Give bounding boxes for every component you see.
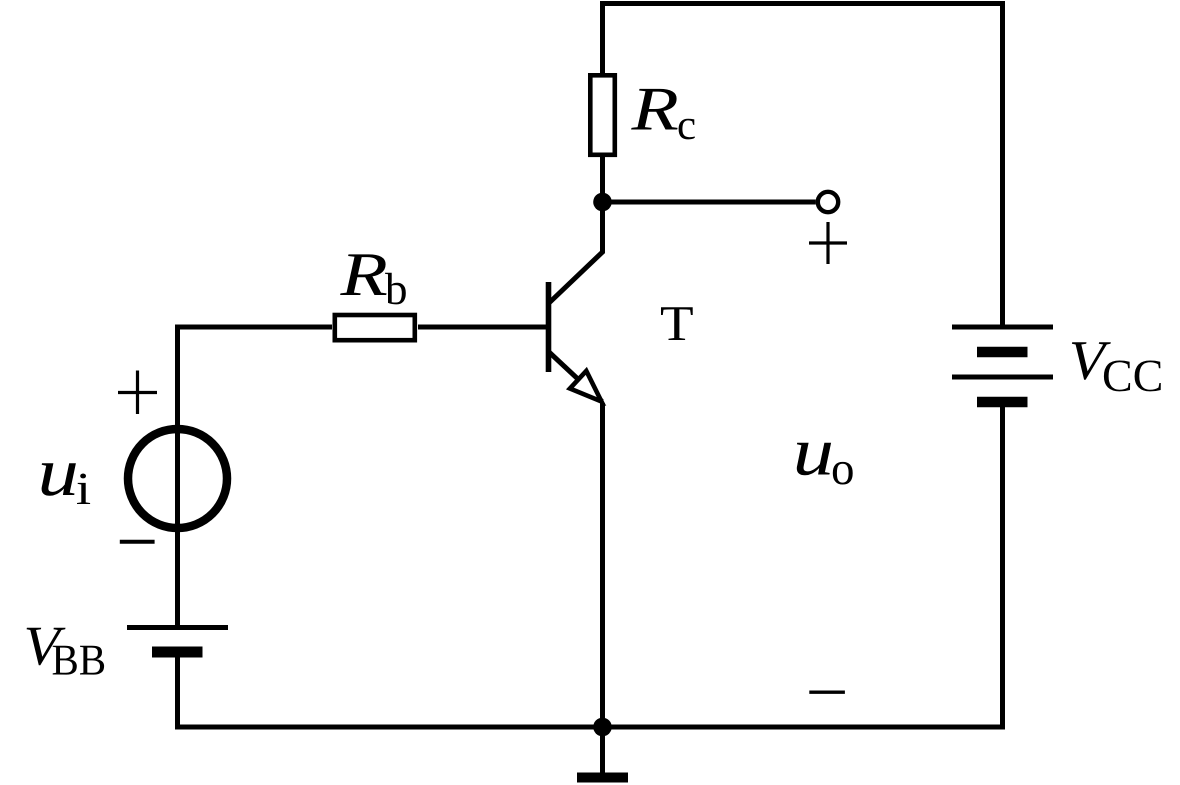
resistor Rc (590, 75, 615, 155)
wire: Rc bottom to collector node (600, 155, 605, 205)
transistor T: emitter open arrowhead (570, 371, 602, 402)
label uo: u (797, 443, 831, 476)
label T (661, 307, 693, 340)
label Rb: R (340, 254, 387, 295)
label VBB: V (27, 628, 66, 666)
transistor T: base bar (546, 282, 552, 372)
battery VCC short thick plate 2 (977, 397, 1028, 408)
wire: Rb right to base (418, 325, 549, 330)
label Rb: subscript b (385, 273, 406, 305)
label plus sign at ui (118, 371, 157, 415)
battery VCC long plate 1 (952, 325, 1053, 330)
label VCC: subscript CC (1104, 361, 1161, 392)
wire: collector node to output terminal (603, 200, 816, 205)
label uo: subscript o (833, 462, 853, 485)
wire: Vcc bottom to bottom rail to VBB bottom (178, 404, 1003, 727)
label minus sign at output (809, 691, 845, 694)
transistor T: emitter stroke (550, 353, 603, 402)
label minus sign at ui (120, 540, 155, 544)
battery VBB long plate (127, 625, 228, 630)
resistor Rb (335, 315, 415, 340)
label Rc: subscript c (679, 119, 695, 140)
label Rc: R (631, 89, 678, 130)
label ui: subscript i (77, 474, 90, 505)
output terminal open circle (818, 192, 838, 212)
wire top loop: Rc top to Vcc top (603, 4, 1003, 328)
battery VCC short thick plate 1 (977, 347, 1028, 358)
label VBB: subscript BB (53, 646, 104, 675)
node: emitter/ground junction dot (593, 718, 612, 737)
transistor T: collector stroke (550, 202, 603, 303)
label ui: u (42, 463, 76, 496)
ground symbol bar (577, 773, 628, 783)
battery VCC long plate 2 (952, 375, 1053, 380)
source ui circle (128, 429, 227, 528)
wire: emitter down to bottom rail and ground stub (600, 403, 605, 773)
node: collector junction dot (593, 193, 612, 212)
label VCC: V (1072, 342, 1111, 380)
battery VBB short thick plate (152, 647, 203, 658)
wire: VBB top through ui source up to Rb left (178, 327, 333, 627)
label plus sign at output (809, 222, 847, 264)
